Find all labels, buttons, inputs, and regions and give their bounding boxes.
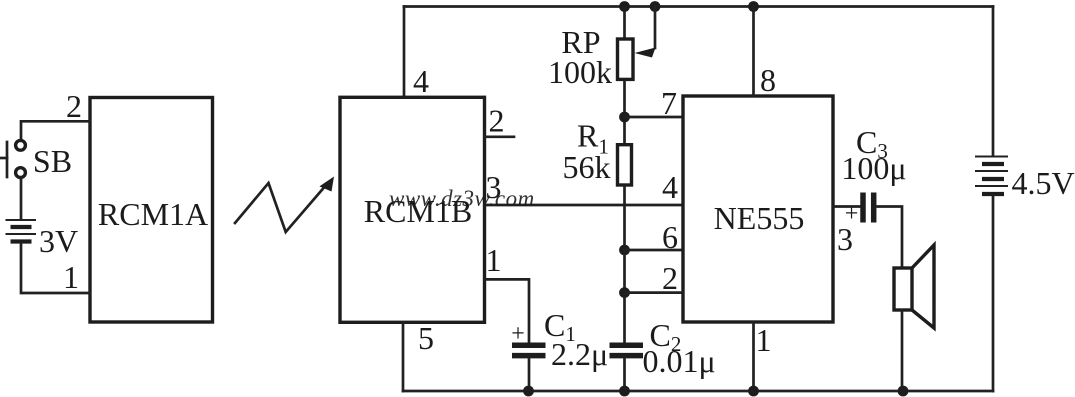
wire RCM1A pin 2 to switch bbox=[21, 121, 90, 140]
node NE555 pin1 / bottom bus bbox=[748, 386, 759, 397]
svg-text:2.2μ: 2.2μ bbox=[551, 336, 608, 372]
svg-text:8: 8 bbox=[760, 62, 776, 98]
svg-text:2: 2 bbox=[489, 103, 505, 139]
wire NE555 pin 8 drop bbox=[752, 7, 755, 97]
svg-text:+: + bbox=[845, 201, 859, 227]
wire RCM1B pin 1 to C1 bbox=[485, 279, 530, 344]
pushbutton SB contacts bbox=[16, 140, 26, 150]
wire RCM1B pin 5 drop bbox=[402, 322, 405, 391]
wire rail pin2 to C2 bbox=[623, 293, 626, 344]
capacitor C3 plates bbox=[860, 193, 866, 223]
capacitor C1 plates bbox=[512, 343, 546, 349]
IC NE555 body bbox=[683, 96, 833, 322]
svg-text:1: 1 bbox=[63, 259, 79, 295]
svg-text:100μ: 100μ bbox=[841, 150, 906, 186]
wire speaker to bottom bus bbox=[901, 310, 904, 391]
wire R1 bottom rail bbox=[623, 187, 626, 250]
node C1 / bottom bus bbox=[523, 386, 534, 397]
speaker horn bbox=[912, 245, 934, 328]
wire RCM1B pin 3 to NE555 pin 4 bbox=[485, 204, 684, 207]
node top bus / RP bbox=[619, 1, 630, 12]
svg-text:RCM1A: RCM1A bbox=[98, 196, 208, 232]
IC RCM1B body bbox=[340, 97, 485, 322]
svg-text:6: 6 bbox=[662, 219, 678, 255]
wire NE555 pin 7 bbox=[625, 116, 684, 119]
wire C2 bottom lead bbox=[623, 357, 626, 391]
wire C1 bottom lead bbox=[528, 358, 531, 391]
svg-text:56k: 56k bbox=[563, 149, 611, 185]
svg-text:1: 1 bbox=[486, 242, 502, 278]
wire NE555 pin 1 drop bbox=[752, 322, 755, 391]
svg-text:www.dz3w.com: www.dz3w.com bbox=[389, 186, 535, 211]
wire RP top lead bbox=[623, 7, 626, 38]
wire RP wiper drop bbox=[654, 7, 657, 49]
wire RP bottom lead to pin7 node bbox=[623, 81, 626, 143]
RP wiper arrowhead bbox=[635, 48, 656, 58]
svg-text:NE555: NE555 bbox=[714, 200, 805, 236]
node pin 7 junction bbox=[619, 112, 630, 123]
wire NE555 pin 6 bbox=[625, 249, 684, 252]
wire switch to battery bbox=[20, 178, 23, 220]
resistor R1 body bbox=[618, 145, 632, 185]
svg-text:5: 5 bbox=[418, 320, 434, 356]
svg-text:100k: 100k bbox=[548, 54, 612, 90]
wire bottom bus bbox=[403, 390, 993, 393]
svg-text:4: 4 bbox=[413, 63, 429, 99]
node top bus / RP wiper bbox=[650, 1, 661, 12]
rf link arrow bbox=[235, 183, 327, 232]
svg-text:7: 7 bbox=[661, 85, 677, 121]
wire NE555 pin 2 bbox=[625, 291, 684, 294]
wire 4.5V battery bottom lead bbox=[992, 196, 995, 391]
svg-text:2: 2 bbox=[662, 260, 678, 296]
battery 3V bbox=[6, 220, 37, 242]
pushbutton SB bar bbox=[6, 142, 9, 177]
svg-text:3V: 3V bbox=[39, 223, 78, 259]
capacitor C2 plates bbox=[610, 343, 644, 349]
node C2 / bottom bus bbox=[619, 386, 630, 397]
svg-text:2: 2 bbox=[66, 88, 82, 124]
svg-text:SB: SB bbox=[33, 143, 72, 179]
battery 4.5V bbox=[975, 157, 1008, 195]
speaker body bbox=[894, 268, 912, 310]
wire C3 to speaker bbox=[876, 207, 902, 269]
svg-text:0.01μ: 0.01μ bbox=[643, 343, 716, 379]
pushbutton SB actuator bbox=[0, 157, 7, 160]
wire NE555 pin 3 to C3 bbox=[833, 205, 860, 208]
wire RCM1B pin 4 drop bbox=[403, 7, 406, 98]
node speaker / bottom bus bbox=[898, 386, 909, 397]
wire top supply bus bbox=[404, 5, 993, 8]
svg-text:4.5V: 4.5V bbox=[1011, 165, 1074, 201]
wire RCM1B pin 2 stub bbox=[485, 135, 515, 138]
wire rail pin6 to pin2 bbox=[623, 250, 626, 293]
svg-text:4: 4 bbox=[662, 169, 678, 205]
node NE555 pin 2 junction bbox=[619, 287, 630, 298]
IC RCM1A body bbox=[90, 98, 213, 323]
node top bus / NE555 pin 8 bbox=[748, 1, 759, 12]
svg-text:1: 1 bbox=[756, 322, 772, 358]
wire 4.5V battery top lead bbox=[992, 7, 995, 157]
wire battery to RCM1A pin 1 bbox=[21, 243, 90, 293]
potentiometer RP body bbox=[618, 39, 634, 79]
svg-text:+: + bbox=[511, 321, 525, 347]
node NE555 pin 6 junction bbox=[619, 245, 630, 256]
